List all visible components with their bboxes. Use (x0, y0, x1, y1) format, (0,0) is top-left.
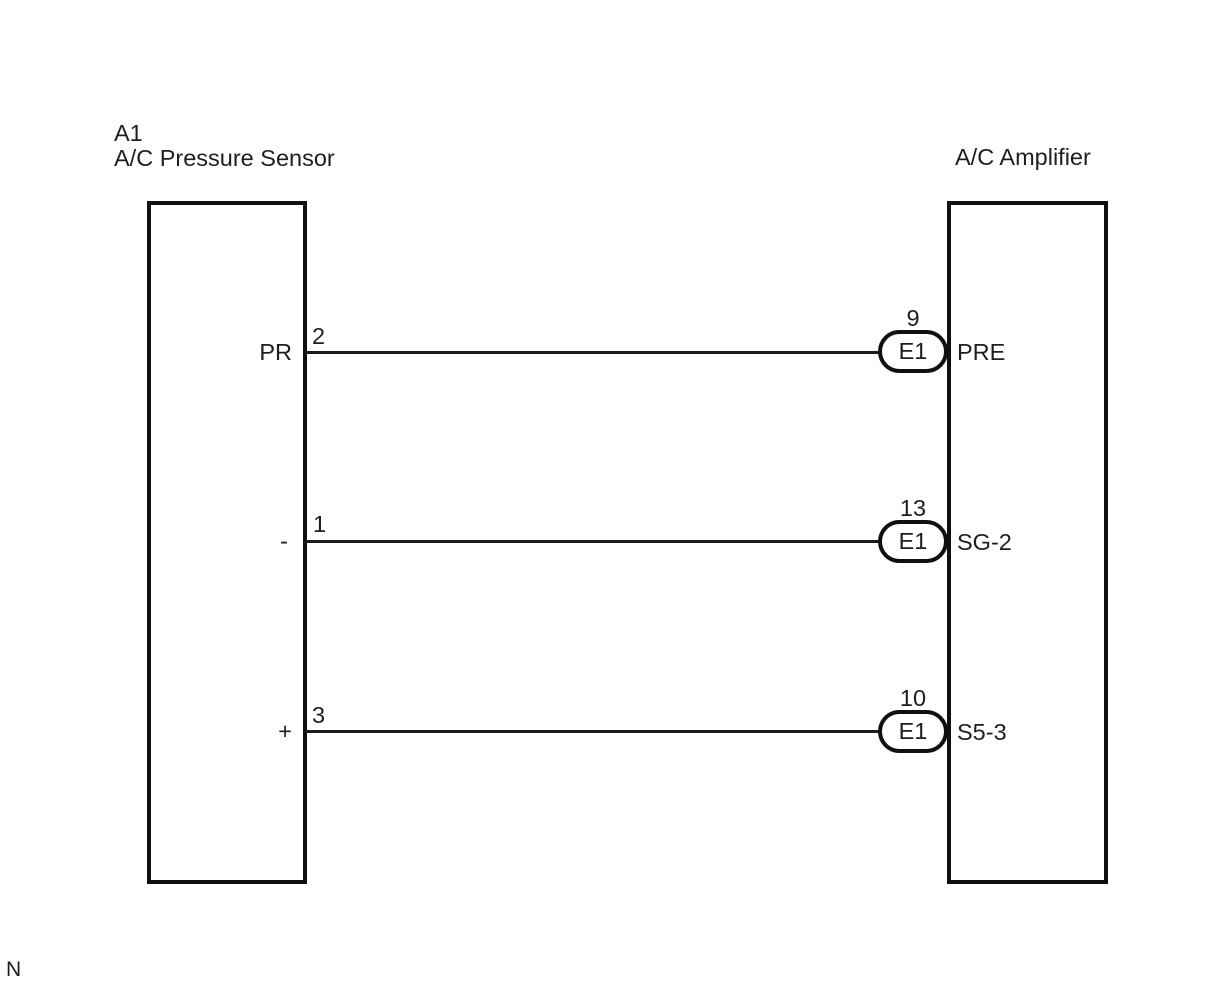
connector oval E1 (pin 10) (878, 710, 948, 753)
pin number 9 (E1, row 1) (873, 306, 953, 331)
pin number 3 (A1) (312, 703, 325, 728)
connector A1 body (A/C Pressure Sensor) (147, 201, 307, 884)
wire - (pin 1) to E1 pin 13 (305, 540, 881, 543)
terminal label S5-3 (957, 720, 1007, 745)
pin label + (inside A1, pin 3) (212, 719, 292, 744)
pin number 1 (A1) (313, 512, 326, 537)
connector oval E1 (pin 13) (878, 520, 948, 563)
label A/C Amplifier (right connector title) (955, 145, 1091, 170)
terminal label PRE (957, 340, 1005, 365)
terminal label SG-2 (957, 530, 1012, 555)
label A1 / A/C Pressure Sensor (left connector title) (114, 121, 335, 171)
pin number 13 (E1, row 2) (873, 496, 953, 521)
pin label PR (inside A1, pin 2) (212, 340, 292, 365)
pin label - (inside A1, pin 1) (208, 529, 288, 554)
pin number 2 (A1) (312, 324, 325, 349)
footnote N (6, 959, 21, 981)
wire + (pin 3) to E1 pin 10 (305, 730, 881, 733)
pin number 10 (E1, row 3) (873, 686, 953, 711)
connector oval E1 (pin 9) (878, 330, 948, 373)
connector body (A/C Amplifier) (947, 201, 1108, 884)
wire PR (pin 2) to E1 pin 9 (305, 351, 881, 354)
